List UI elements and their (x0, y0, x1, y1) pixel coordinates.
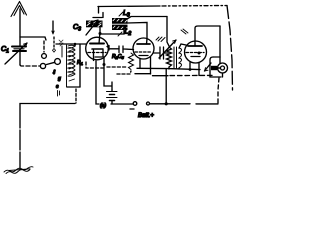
transformer T1 (167, 47, 182, 68)
label L3 (119, 12, 123, 16)
svg-text:Batt.+: Batt.+ (138, 113, 154, 119)
tube V3 (185, 41, 207, 63)
wire B+ bus (150, 103, 218, 105)
label C4 scribble (156, 37, 165, 42)
wire T1 primary top (167, 17, 169, 47)
node plate V1 (99, 32, 102, 35)
wire dashed to contact (43, 41, 45, 52)
battery B (107, 90, 118, 104)
arrow variable cap C4 (159, 40, 176, 58)
wire T1 bottoms (169, 67, 179, 69)
switch arm (47, 62, 55, 64)
wire V1 right leg down (104, 57, 112, 90)
antenna (11, 2, 27, 17)
arrow pointer (52, 21, 56, 52)
label L2 (118, 32, 122, 36)
wire V1 cathode down (96, 61, 99, 104)
svg-text:c: c (56, 84, 59, 90)
wire V3 plate top (195, 26, 220, 41)
capacitor C6 (154, 47, 168, 59)
switch S1 contact a (42, 54, 47, 59)
wire plate to coil (100, 30, 124, 34)
tube V2 (133, 38, 154, 59)
wire B+ riser (165, 69, 167, 104)
wire V3 cathode legs (190, 63, 199, 76)
wire lower bus (135, 74, 168, 76)
wire L2 to V2 grid cap (127, 23, 147, 40)
svg-text:(a): (a) (100, 103, 106, 109)
wire dashed grid leak (107, 66, 127, 68)
wire lower bus dashed right (170, 74, 214, 76)
svg-text:g: g (58, 76, 61, 82)
switch S1 wiper (55, 59, 61, 65)
wire dashed coil bottom to bus (75, 89, 77, 103)
tube V1 (86, 35, 109, 61)
node junction coil top (74, 43, 77, 46)
wire grid bus to V1 (56, 43, 86, 45)
switch S1 contact b (40, 63, 45, 68)
svg-text:C1: C1 (1, 46, 9, 55)
svg-text:ℓ: ℓ (52, 69, 56, 76)
inductor L2 L3 coil box (112, 18, 128, 30)
inductor L1 coil column (67, 45, 76, 87)
node V3 leg (189, 68, 192, 71)
wire shield right side (227, 6, 233, 91)
terminal plus (147, 102, 150, 105)
wire L3 to T1 (127, 17, 167, 20)
wire resistor bottom dashed (117, 71, 131, 74)
wire branch to switch (20, 37, 46, 40)
capacitor C3 (86, 13, 103, 36)
wire plate rail down to phones (219, 26, 221, 57)
wire jack to B+ bus dashed (218, 78, 219, 104)
svg-text:L2: L2 (125, 29, 132, 38)
wire jack bottom (220, 57, 223, 77)
node junction (103, 63, 106, 66)
phone plug (211, 66, 220, 70)
wire ground return (20, 104, 75, 170)
wire coil top to wiper (61, 46, 63, 57)
wire dashed to contact 2 (20, 65, 40, 66)
ground (4, 167, 33, 174)
svg-text:R2C5: R2C5 (112, 54, 124, 60)
svg-text:C3: C3 (73, 24, 81, 33)
wire battery to terminal (111, 103, 133, 105)
capacitor C2 coupling (107, 46, 134, 53)
arrow to jack (205, 63, 212, 71)
wire antenna lead down (19, 9, 21, 46)
wire C3 bottom to plate node (99, 28, 101, 34)
phones loop (210, 57, 221, 77)
resistor R3 zigzag (129, 53, 134, 70)
wire coil right vertical (79, 44, 81, 87)
wire C3 top (98, 7, 100, 14)
label C4 ticks (181, 29, 188, 34)
wire dashed left under V1 (86, 62, 104, 68)
wire mid bus solid (137, 68, 200, 69)
wire T1 secondary top to V3 (179, 44, 186, 48)
coil L1 top ticks (59, 40, 63, 46)
wire top shield rail (98, 5, 160, 8)
capacitor C1 (5, 43, 27, 64)
jack J1 (218, 63, 228, 73)
wire C1 to corner (19, 51, 21, 65)
svg-text:R1: R1 (77, 60, 83, 66)
terminal minus (133, 102, 137, 106)
wire V2 cathode legs (140, 57, 151, 74)
node B+ junction (165, 102, 168, 105)
wire coil bottom (67, 86, 80, 88)
